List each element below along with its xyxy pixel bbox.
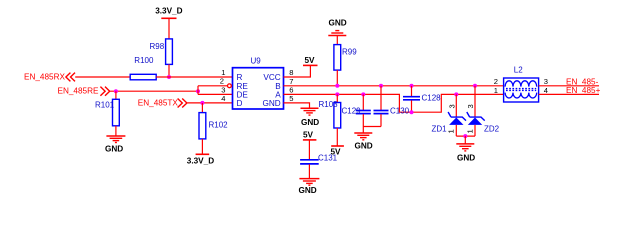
svg-text:5V: 5V (303, 130, 314, 139)
node: junction ZD2 on B line (473, 84, 477, 88)
svg-text:EN_485+: EN_485+ (566, 86, 601, 95)
capacitor C131 (300, 153, 338, 178)
node: junction R99 on B line (335, 84, 339, 88)
wire ZD bottoms join (456, 135, 475, 137)
svg-text:R102: R102 (209, 120, 229, 129)
svg-text:C131: C131 (318, 153, 338, 162)
wire EN_485RE to RE/DE junction (110, 90, 198, 92)
svg-text:4: 4 (544, 86, 548, 95)
node: junction ZD1 on A line (454, 92, 458, 96)
capacitor C130 (374, 86, 410, 127)
node: junction R103 on A line (335, 92, 339, 96)
svg-text:R99: R99 (342, 47, 357, 56)
power 5V (at pin 8) (303, 56, 318, 77)
ground (U9 pin 5) (301, 108, 320, 127)
node: junction C129 on A line (361, 92, 365, 96)
svg-text:GND: GND (329, 18, 347, 27)
svg-text:GND: GND (301, 118, 319, 127)
node: junction R101 on RE line (114, 89, 118, 93)
wire to pin 2 bubble (198, 85, 227, 87)
ground (below C129/C130) (354, 133, 372, 150)
wire B net: U9 pin 7 to L2 pin 2 (284, 85, 504, 87)
power 3.3V_D (top, above R98) (155, 7, 182, 39)
svg-text:GND: GND (299, 186, 317, 195)
node: junction C130 on B line (379, 84, 383, 88)
power 5V (above C131) (303, 130, 317, 159)
wire A net: U9 pin 6 to L2 pin 1 (with detour under C128) (284, 94, 504, 112)
svg-text:GND: GND (355, 141, 373, 150)
op-amp/IC U9 box (233, 57, 284, 109)
svg-text:4: 4 (221, 94, 225, 103)
svg-text:GND: GND (262, 99, 280, 108)
net label EN_485RX (24, 73, 75, 82)
svg-text:U9: U9 (251, 57, 262, 66)
svg-text:C129: C129 (342, 107, 362, 116)
svg-text:ZD2: ZD2 (484, 124, 500, 133)
wire EN_485RX to R100 (75, 76, 130, 78)
capacitor C129 (342, 94, 371, 126)
svg-text:5: 5 (289, 94, 293, 103)
svg-text:3: 3 (544, 77, 548, 86)
ground (below C131) (299, 179, 320, 196)
net label EN_485TX (138, 98, 187, 107)
capacitor C128 (403, 86, 441, 112)
wire R100 to U9 pin 1 (156, 76, 232, 78)
svg-text:GND: GND (457, 153, 475, 162)
wire RE/DE split vertical (197, 86, 199, 95)
svg-text:VCC: VCC (263, 73, 280, 82)
svg-text:5V: 5V (305, 56, 316, 65)
svg-text:EN_485TX: EN_485TX (138, 98, 179, 107)
svg-text:2: 2 (494, 77, 498, 86)
ground (inverted, above R99) (328, 18, 346, 44)
power 5V (below R103) (331, 146, 344, 156)
ground (below ZD1/ZD2) (456, 136, 475, 162)
svg-text:C130: C130 (390, 107, 410, 116)
svg-text:3.3V_D: 3.3V_D (187, 157, 214, 166)
svg-text:R100: R100 (134, 56, 154, 65)
svg-text:7: 7 (289, 77, 293, 86)
svg-text:EN_485RE: EN_485RE (58, 87, 100, 96)
resistor R98 (150, 39, 173, 77)
svg-text:D: D (237, 99, 243, 108)
ground (below R101) (105, 136, 125, 154)
zener diode ZD1 (432, 94, 467, 136)
wire U9 pin 8 (VCC) to 5V (284, 76, 312, 78)
resistor R101 (95, 91, 119, 136)
zener diode ZD2 (465, 86, 499, 136)
svg-text:3.3V_D: 3.3V_D (155, 7, 182, 16)
wire L2 pin 4 to EN_485+ (539, 93, 599, 95)
resistor R102 (199, 103, 228, 154)
svg-text:R98: R98 (150, 42, 165, 51)
wire L2 pin 3 to EN_485- (539, 85, 599, 87)
node: junction R98 on RX line (167, 75, 171, 79)
pin 2 inversion bubble (228, 84, 232, 88)
svg-text:GND: GND (105, 145, 123, 154)
net label EN_485RE (58, 87, 110, 96)
node: junction C128 on B line (410, 84, 414, 88)
svg-text:3: 3 (448, 104, 457, 108)
wire U9 pin 5 (GND) (284, 103, 310, 108)
svg-text:ZD1: ZD1 (432, 124, 448, 133)
svg-text:1: 1 (494, 86, 498, 95)
wire EN_485TX to U9 pin 4 (187, 102, 232, 104)
svg-text:EN_485RX: EN_485RX (24, 73, 66, 82)
node: junction R102 on TX line (200, 101, 204, 105)
node: junction C128 bottom on A detour (410, 110, 414, 114)
wire to pin 3 (198, 93, 233, 95)
inductor/choke L2 (504, 65, 539, 102)
node: junction ZD ground (463, 134, 467, 138)
svg-text:1: 1 (465, 129, 474, 133)
svg-text:3: 3 (466, 104, 475, 108)
wire cap bottoms join (363, 126, 381, 128)
svg-text:1: 1 (447, 129, 456, 133)
svg-text:L2: L2 (514, 65, 523, 74)
svg-text:C128: C128 (422, 94, 442, 103)
power 3.3V_D (below R102) (187, 154, 214, 165)
svg-text:R103: R103 (319, 100, 339, 109)
resistor R103 (319, 94, 341, 146)
svg-text:R101: R101 (95, 100, 115, 109)
node: junction RE/DE split (196, 89, 200, 93)
resistor R99 (334, 45, 357, 86)
svg-text:R: R (237, 73, 243, 82)
resistor R100 (130, 56, 156, 80)
svg-text:2: 2 (220, 76, 224, 85)
